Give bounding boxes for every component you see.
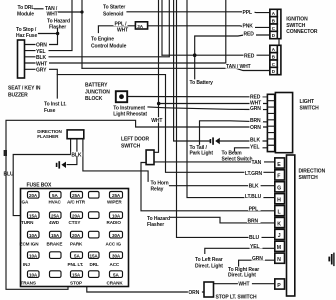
wire YEL beam select to light pin9 — [235, 148, 268, 151]
stop light switch box — [204, 282, 214, 297]
svg-text:SWITCH: SWITCH — [300, 106, 320, 112]
label BLK seat — [36, 54, 49, 61]
svg-text:STOP LT. SWITCH: STOP LT. SWITCH — [216, 294, 257, 300]
svg-text:To Battery: To Battery — [190, 80, 214, 86]
svg-text:BUZZER: BUZZER — [8, 92, 28, 98]
svg-text:ORN: ORN — [188, 290, 199, 296]
svg-text:WHT: WHT — [151, 118, 162, 124]
wire to DRL module — [35, 8, 44, 10]
svg-text:To Instrument: To Instrument — [113, 105, 145, 111]
svg-text:Solenoid: Solenoid — [103, 12, 123, 18]
wire YEL left-rear to direction pin M — [205, 248, 275, 253]
label ORN stop — [188, 289, 202, 296]
label LT.BLU dir H — [244, 193, 263, 200]
label YEL light9 — [250, 144, 263, 151]
fuse 5A PNL LT. — [68, 252, 84, 267]
wire TAN/WHT to ignition D2 — [82, 68, 270, 70]
fuse 15A DRL — [89, 252, 100, 267]
wire To Battery lead — [194, 55, 196, 79]
battery junction block box — [116, 91, 127, 102]
svg-text:15A: 15A — [90, 253, 99, 258]
fuse 25A 4WD — [49, 212, 61, 225]
label GRN light3 — [250, 106, 264, 113]
fuse 10A TRANS — [21, 271, 40, 286]
svg-text:INJ: INJ — [23, 262, 30, 267]
svg-text:J: J — [278, 233, 281, 239]
svg-text:GRY: GRY — [36, 68, 47, 74]
fuse 10A ECM IGN — [20, 231, 40, 246]
fuse 15A BRAKE — [47, 231, 63, 246]
inline connector (tail/park BLK wire) — [210, 137, 220, 144]
wire vertical TAN/WHT bus x82 — [81, 0, 83, 68]
svg-text:TURN: TURN — [21, 220, 34, 225]
left door switch box — [146, 150, 154, 165]
svg-text:TAN: TAN — [252, 160, 262, 166]
wire WHT to light switch pin2 — [159, 103, 268, 105]
fuse blank r2c3 — [89, 212, 100, 219]
svg-text:Module: Module — [17, 12, 34, 18]
svg-text:LEFT DOOR: LEFT DOOR — [121, 136, 149, 142]
label RED ignition B2 — [244, 53, 257, 60]
svg-text:ORN: ORN — [250, 125, 261, 131]
svg-text:15A: 15A — [29, 213, 38, 218]
wire BRN hazard flasher to direction pin K — [171, 217, 275, 223]
svg-text:30A: 30A — [112, 253, 121, 258]
svg-text:CTSY: CTSY — [69, 220, 81, 225]
fuse 15A TURN — [21, 212, 39, 225]
svg-text:PPL: PPL — [243, 10, 252, 16]
label WHT stop — [238, 281, 252, 288]
svg-text:WHT: WHT — [117, 27, 128, 33]
wire ORN from seat connector — [25, 29, 58, 45]
svg-text:GRN: GRN — [252, 256, 263, 262]
wire bus V1 WHT x158.5 — [154, 0, 159, 152]
wire ignition inter-block link — [278, 39, 280, 46]
svg-text:WHT: WHT — [36, 61, 47, 67]
svg-text:LT.GRN: LT.GRN — [245, 171, 263, 177]
svg-text:Haz Fuse: Haz Fuse — [16, 33, 37, 39]
fuse 25A A/C HTR — [67, 192, 86, 205]
svg-text:BLK: BLK — [71, 152, 81, 158]
fuse 30A ACC IG — [106, 231, 123, 246]
svg-text:STOP: STOP — [70, 281, 82, 286]
svg-text:Relay: Relay — [151, 186, 164, 192]
fuse 15A STOP — [70, 271, 83, 286]
svg-text:YEL: YEL — [250, 145, 259, 151]
svg-text:To Hazard: To Hazard — [147, 216, 170, 222]
label YEL dir M — [250, 244, 263, 251]
wire BLK from seat connector — [25, 0, 170, 57]
svg-text:ACC: ACC — [110, 262, 120, 267]
wire BRN light pin5 with tail-park lead — [200, 121, 268, 145]
svg-text:RED: RED — [244, 32, 255, 38]
svg-text:Select Switch: Select Switch — [222, 156, 253, 162]
svg-text:3A: 3A — [137, 24, 143, 29]
wire PPL to starter solenoid / ignition A — [127, 11, 270, 14]
svg-text:G: G — [277, 186, 281, 192]
wire WHT stop light to direction pin P — [214, 283, 275, 285]
svg-text:Park Light: Park Light — [190, 151, 214, 157]
wire YEL from seat connector — [25, 0, 73, 51]
svg-text:To Inst Lt.: To Inst Lt. — [44, 102, 67, 108]
wire GRN rheostat to light switch pin3 — [148, 107, 267, 110]
light switch body — [275, 93, 292, 153]
node rheostat dot — [157, 102, 161, 106]
wire bus V5 x187 to LT.BLU direction pin H — [187, 0, 275, 198]
svg-text:CONNECTOR: CONNECTOR — [286, 29, 318, 35]
wire RED to ignition B2 — [162, 54, 270, 56]
fuse 10A INJ — [23, 252, 39, 267]
svg-text:PARK: PARK — [70, 242, 83, 247]
svg-text:WIPER: WIPER — [107, 200, 122, 205]
fuse 5A HVAC — [49, 192, 62, 205]
fuse 20A CTSY — [69, 212, 83, 225]
fuse blank r1c3 — [89, 192, 100, 199]
svg-text:FUSE BOX: FUSE BOX — [27, 183, 53, 189]
wire BLU flasher to turn fuse — [13, 139, 70, 216]
label WHT light2 — [250, 100, 264, 107]
svg-text:P: P — [277, 283, 281, 289]
fuse blank r4c1 — [50, 252, 62, 259]
svg-text:10A: 10A — [29, 233, 38, 238]
svg-text:10A: 10A — [112, 213, 121, 218]
svg-text:15A: 15A — [72, 272, 81, 277]
svg-text:N: N — [277, 257, 281, 263]
label BLK flasher — [71, 152, 83, 159]
wire RED bus riser x162 — [161, 0, 163, 55]
inline connector (right edge) — [328, 253, 334, 267]
wire WHT from seat connector — [25, 0, 226, 63]
svg-text:LIGHT: LIGHT — [300, 99, 315, 105]
wire BLK flasher to inline connector — [67, 139, 77, 165]
svg-text:5A: 5A — [74, 253, 80, 258]
direction flasher box — [67, 130, 84, 139]
svg-text:ACC IG: ACC IG — [106, 242, 122, 247]
direction switch body — [287, 155, 295, 296]
label TAN dir E — [251, 160, 264, 167]
fuse 30A ACC — [110, 252, 123, 267]
fuse 10A RADIO — [107, 212, 123, 225]
svg-text:BLK: BLK — [36, 55, 46, 61]
label GRN dir N — [252, 256, 266, 263]
direction switch pin boxes — [275, 158, 285, 289]
wire RED battery junction block to light switch pin1 — [127, 96, 267, 98]
fuse blank r3c3 — [89, 231, 100, 238]
svg-text:GA: GA — [22, 200, 29, 205]
svg-text:IGNITION: IGNITION — [286, 17, 308, 23]
ignition switch connector block 1 — [270, 9, 281, 38]
wire PNK from 3A fuse to ignition C — [148, 26, 270, 28]
wire BLK flasher-horn to direction pin G — [83, 139, 275, 186]
svg-text:K: K — [277, 221, 281, 227]
svg-text:F: F — [277, 174, 280, 180]
svg-text:E: E — [277, 162, 281, 168]
svg-text:To Engine: To Engine — [91, 37, 114, 43]
node hazard junction dot — [56, 32, 59, 35]
node battery junction dot — [193, 53, 197, 57]
svg-text:ORN: ORN — [36, 43, 47, 49]
fuse 5A CRANK — [107, 271, 124, 286]
svg-text:A/C HTR: A/C HTR — [67, 200, 86, 205]
svg-text:BLK: BLK — [249, 183, 259, 189]
svg-text:10A: 10A — [29, 253, 38, 258]
svg-text:10A: 10A — [29, 272, 38, 277]
svg-text:BATTERY: BATTERY — [85, 83, 108, 89]
svg-text:To Left Rear: To Left Rear — [195, 257, 223, 263]
svg-text:30A: 30A — [112, 233, 121, 238]
svg-text:Control Module: Control Module — [91, 44, 127, 50]
svg-text:5A: 5A — [113, 272, 119, 277]
label YEL seat — [36, 48, 49, 55]
svg-text:PPL: PPL — [249, 206, 258, 212]
svg-text:Direct. Light: Direct. Light — [228, 273, 256, 279]
svg-text:Flasher: Flasher — [147, 222, 164, 228]
fuse 25A WIPER — [107, 192, 123, 205]
svg-text:BRN: BRN — [250, 118, 261, 124]
svg-text:PNL LT.: PNL LT. — [68, 262, 84, 267]
svg-text:BRN: BRN — [248, 219, 259, 225]
label RED ignition D — [243, 31, 256, 37]
svg-text:H: H — [277, 198, 281, 204]
wire GRN right-rear to direction pin N — [239, 260, 275, 266]
label PPL dir L — [248, 206, 261, 213]
svg-text:BLOCK: BLOCK — [85, 96, 103, 102]
svg-text:BRAKE: BRAKE — [47, 242, 63, 247]
wire PPL feed to direction pin L — [141, 163, 275, 211]
svg-text:To Starter: To Starter — [103, 5, 125, 11]
svg-text:SWITCH: SWITCH — [286, 23, 306, 29]
svg-text:DRL: DRL — [90, 262, 99, 267]
svg-text:CRANK: CRANK — [107, 281, 124, 286]
svg-text:BLU: BLU — [4, 172, 14, 178]
svg-text:Fuse: Fuse — [44, 108, 56, 114]
fuse blank r5c3 — [89, 271, 100, 278]
svg-text:RED: RED — [244, 54, 255, 60]
label BRN light5 — [250, 117, 264, 124]
svg-text:FLASHER: FLASHER — [37, 134, 59, 139]
svg-text:M: M — [277, 245, 281, 251]
seat/key-in buzzer connector — [18, 40, 25, 78]
svg-text:SEAT / KEY IN: SEAT / KEY IN — [8, 86, 41, 92]
svg-text:GRN: GRN — [250, 106, 261, 112]
svg-text:ECM IGN: ECM IGN — [20, 242, 40, 247]
wire GRY from seat connector — [25, 69, 58, 98]
label TAN / WHT ignition D2 — [226, 64, 251, 71]
svg-text:15A: 15A — [51, 233, 60, 238]
svg-text:Light Rheostat: Light Rheostat — [113, 112, 147, 118]
svg-text:RADIO: RADIO — [107, 220, 122, 225]
svg-text:20A: 20A — [29, 193, 38, 198]
wire TAN door switch to direction pin E — [154, 161, 275, 163]
svg-text:Direct. Light: Direct. Light — [195, 263, 223, 269]
svg-text:20A: 20A — [72, 233, 81, 238]
svg-text:YEL: YEL — [250, 244, 259, 250]
svg-text:5A: 5A — [52, 193, 58, 198]
svg-text:BLK: BLK — [250, 138, 260, 144]
fuse 3A box — [135, 22, 147, 29]
svg-text:25A: 25A — [72, 193, 81, 198]
svg-text:SWITCH: SWITCH — [299, 175, 319, 181]
node TAN/WHT junction dot — [80, 10, 83, 13]
label GRY seat — [36, 67, 50, 74]
svg-text:Flasher: Flasher — [49, 24, 66, 30]
label BLU dir J — [249, 235, 262, 242]
svg-text:LT.BLU: LT.BLU — [245, 194, 262, 200]
svg-text:WHT: WHT — [238, 282, 249, 288]
wire GRY branch to V2 light-green feed — [57, 75, 274, 173]
label PPL / WHT fuse wire — [114, 22, 128, 28]
svg-text:BLU: BLU — [249, 235, 259, 241]
edge artifact blob — [4, 150, 7, 156]
wire TAN/WHT top label lead — [59, 11, 83, 13]
label PPL ignition — [242, 10, 255, 17]
svg-text:RED: RED — [250, 94, 261, 100]
ignition switch connector block 2 — [270, 45, 281, 74]
svg-text:PNK: PNK — [243, 24, 254, 30]
label RED light1 — [250, 94, 263, 101]
wire bus V3 x173.6 to BLK light pin8 — [174, 0, 268, 141]
label BLK light8 — [250, 137, 263, 144]
label PNK ignition — [242, 23, 255, 30]
label BLK dir G — [248, 183, 261, 190]
svg-text:TAN / WHT: TAN / WHT — [226, 64, 251, 70]
svg-text:JUNCTION: JUNCTION — [85, 89, 110, 95]
svg-text:To DRL: To DRL — [18, 5, 35, 11]
svg-text:HVAC: HVAC — [49, 200, 62, 205]
fuse box outline — [21, 189, 129, 287]
label BRN dir K — [247, 218, 261, 225]
svg-text:SWITCH: SWITCH — [121, 143, 141, 149]
svg-text:WHT: WHT — [47, 12, 58, 18]
inline connector (flasher BLK ground) — [56, 161, 66, 168]
svg-text:TRANS: TRANS — [21, 281, 36, 286]
svg-text:25A: 25A — [51, 213, 60, 218]
wire RED riser to ignition D1 — [195, 35, 270, 55]
fuse blank r5c1 — [50, 271, 62, 278]
fuse 20A GA — [22, 192, 40, 205]
light switch pin strip — [267, 94, 274, 151]
svg-text:DIRECTION: DIRECTION — [299, 169, 326, 175]
wire ORN stop light feed — [87, 286, 204, 293]
svg-text:25A: 25A — [112, 193, 121, 198]
wire PNK engine control module lead — [98, 26, 135, 33]
wire ORN big loop from fuse box to light pin6 — [6, 120, 267, 289]
fuse 20A PARK — [70, 231, 83, 246]
label LT.GRN dir F — [244, 171, 263, 178]
label ORN seat — [36, 42, 50, 49]
label ORN light6 — [250, 125, 264, 132]
label WHT seat — [36, 60, 50, 67]
label WHT door feed — [151, 117, 165, 124]
svg-text:20A: 20A — [72, 213, 81, 218]
svg-text:4WD: 4WD — [49, 220, 60, 225]
svg-text:YEL: YEL — [36, 49, 45, 55]
wire bus V4 x176.5 to BLU direction pin J — [177, 0, 275, 237]
